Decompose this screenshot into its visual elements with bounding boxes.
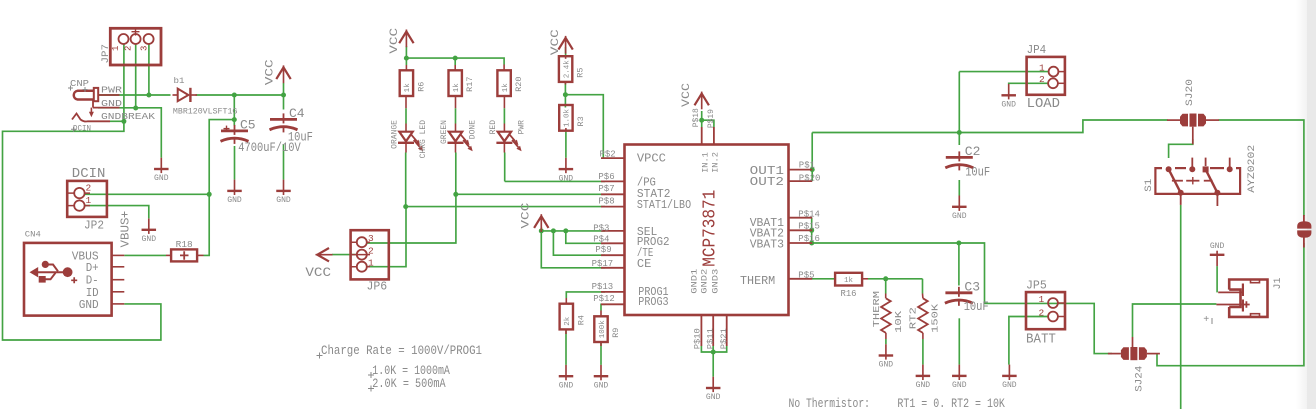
svg-text:P$3: P$3 (593, 224, 609, 234)
svg-text:DONE: DONE (469, 120, 478, 139)
screen edge shading (1296, 0, 1316, 409)
svg-text:GND: GND (276, 196, 291, 205)
svg-text:10uF: 10uF (965, 166, 990, 180)
pin label D+ (86, 261, 99, 275)
wire VCC4 stem (701, 111, 703, 120)
wire VPCC (565, 95, 603, 158)
text 1.0K (368, 363, 450, 378)
resistor RT2 (918, 294, 928, 340)
power VCC arrow 5 (534, 214, 548, 232)
svg-text:JP2: JP2 (84, 219, 104, 233)
svg-text:1: 1 (111, 46, 121, 51)
label C2 value (965, 166, 990, 180)
pin name PROG1 (638, 285, 668, 299)
svg-text:JP6: JP6 (367, 280, 388, 294)
svg-text:AYZ0202: AYZ0202 (1247, 145, 1258, 193)
svg-text:SJ24: SJ24 (1135, 366, 1146, 392)
ground JP4 (1001, 84, 1016, 110)
wire VCC arrow stem (283, 83, 285, 95)
svg-text:GND: GND (101, 99, 122, 109)
label VCC 2 (389, 27, 401, 54)
pin label P$18 (691, 108, 701, 127)
wire THERM net (812, 278, 835, 280)
pin name GND1 (690, 269, 700, 294)
wire JP5 pin2 to GND (1009, 317, 1048, 365)
svg-text:VBUS: VBUS (118, 218, 132, 248)
wire R6 top (405, 58, 407, 65)
svg-text:CHRG LED: CHRG LED (419, 120, 428, 159)
wire CE branch (541, 231, 605, 268)
pin label P$14 (798, 209, 820, 219)
svg-text:VCC: VCC (389, 27, 401, 54)
junction C5 tap (232, 93, 237, 98)
ground C5 (227, 180, 242, 206)
pin label P$16 (798, 234, 820, 244)
svg-text:P$7: P$7 (598, 184, 614, 194)
connector JP7 (110, 28, 161, 65)
wire STAT1/LBO (406, 206, 605, 208)
junction rail R6 (404, 56, 409, 61)
label VCC 5 (520, 202, 532, 229)
ground C2 (952, 196, 967, 222)
text no thermistor (789, 396, 871, 409)
label JP6 (367, 280, 388, 294)
svg-text:IN.1: IN.1 (701, 152, 711, 173)
svg-text:100k: 100k (599, 320, 607, 339)
pin name OUT2 (750, 175, 784, 189)
label JP4 (1027, 43, 1047, 57)
junction STAT2 LED2 JP6 (453, 192, 458, 197)
pin name THERM (740, 274, 775, 288)
pin number JP4-1 (1039, 62, 1045, 73)
svg-text:PROG3: PROG3 (638, 295, 668, 309)
svg-text:150K: 150K (929, 304, 940, 333)
svg-text:P$10: P$10 (692, 328, 702, 349)
svg-text:GND: GND (1001, 101, 1016, 110)
pin number JP2-1 (86, 195, 92, 206)
wire R16 to RT2 (868, 278, 923, 280)
label D1 (174, 76, 185, 86)
label VCC 4 (681, 83, 693, 107)
wire SEL (541, 230, 605, 232)
pin name STAT2 (637, 187, 671, 201)
wire VCC2 stem (405, 46, 407, 58)
wire LED rail (406, 58, 504, 64)
svg-text:JP7: JP7 (100, 44, 112, 64)
pin number JP5-1 (1039, 294, 1045, 305)
wire VCC5 stem (540, 227, 542, 231)
svg-text:VPCC: VPCC (637, 152, 666, 166)
connector CN4 (24, 243, 124, 316)
svg-text:P$6: P$6 (598, 172, 614, 182)
pin label GND jack (101, 99, 122, 109)
svg-text:GND: GND (559, 174, 574, 183)
wire JP7 pin2 (135, 44, 137, 109)
svg-text:3: 3 (368, 233, 374, 244)
pin name VBAT2 (750, 227, 784, 241)
label JP7 (100, 44, 112, 64)
svg-text:P$4: P$4 (593, 234, 609, 244)
pin label P$4 (593, 234, 609, 244)
junction TE tap (551, 228, 556, 233)
svg-text:P$5: P$5 (798, 270, 814, 280)
wire JP7 pin1 (123, 44, 125, 122)
svg-text:2: 2 (124, 46, 134, 51)
power VCC arrow 4 (695, 92, 709, 110)
label JP2 (84, 219, 104, 233)
svg-text:VCC: VCC (265, 59, 277, 86)
LED CHRG orange (391, 120, 428, 159)
svg-text:C2: C2 (965, 144, 981, 159)
pin label GNDBREAK (101, 112, 156, 122)
pin number JP5-2 (1039, 308, 1045, 319)
svg-text:1.0k: 1.0k (564, 108, 572, 127)
svg-text:GND1: GND1 (690, 269, 700, 294)
svg-text:+: + (1203, 315, 1209, 326)
pin number JP6-2 (368, 246, 374, 257)
pin label P$19 (706, 109, 716, 128)
wire THERM res bottom (885, 339, 887, 344)
pin number JP7-3 (140, 46, 150, 51)
connector JP2 (67, 181, 107, 217)
pin label P$11 (705, 328, 715, 349)
wire R17 top (454, 58, 456, 65)
wire diode D1 to VCC arrow (196, 94, 284, 96)
switch S1 AYZ0202 (1155, 158, 1240, 206)
wire STAT2 (456, 193, 605, 195)
wire THERM resistor top (885, 279, 887, 294)
svg-text:GND: GND (79, 298, 99, 312)
wire VCC3 stem (565, 47, 567, 56)
svg-text:P$1: P$1 (799, 161, 815, 171)
svg-text:R9: R9 (611, 328, 621, 338)
label J1 plus (1203, 315, 1212, 326)
wire PROG1 to R4 (566, 292, 605, 298)
label C3 value (964, 300, 989, 314)
pin name IN1 (701, 152, 711, 173)
svg-text:RT1 = 0. RT2 = 10K: RT1 = 0. RT2 = 10K (897, 396, 1005, 409)
pin label P$10 (692, 328, 702, 349)
pin name /PG (637, 175, 656, 189)
pin label VBUS (72, 250, 99, 264)
svg-text:1k: 1k (404, 83, 412, 93)
pin number JP7-1 (111, 46, 121, 51)
usb icon (30, 261, 78, 284)
label C4 value (288, 131, 313, 145)
svg-text:R5: R5 (576, 67, 586, 77)
svg-text:GND3: GND3 (710, 269, 720, 294)
wire SJ24 center to J1 plus (1133, 304, 1217, 337)
power VCC arrow 2 (399, 30, 413, 48)
junction C2 tap (957, 130, 962, 135)
wire C4 bottom (283, 144, 285, 180)
label SJ24 (1135, 366, 1146, 392)
wire RT2 bottom (922, 339, 924, 365)
junction THERM resistor (883, 276, 888, 281)
svg-text:C4: C4 (289, 106, 305, 121)
svg-text:DCIN: DCIN (72, 166, 106, 182)
connector JP6 (351, 230, 389, 279)
svg-text:THERM: THERM (740, 274, 775, 288)
svg-text:P$15: P$15 (798, 222, 820, 232)
resistor R20 (497, 65, 524, 109)
junction GND pins (711, 350, 716, 355)
svg-text:OUT2: OUT2 (750, 175, 784, 189)
wire C2 top (958, 133, 960, 146)
label THERM (871, 291, 882, 328)
label VCC 1 (265, 59, 277, 86)
LED DONE green (440, 120, 477, 153)
svg-text:GND: GND (594, 381, 609, 390)
ground THERM (879, 344, 894, 370)
ground R9 (594, 365, 609, 391)
ground C4 (276, 180, 291, 206)
svg-text:2: 2 (86, 183, 92, 194)
wire JP4 pin1 (959, 71, 1049, 73)
pin label P$3 (593, 224, 609, 234)
svg-text:GND: GND (916, 381, 931, 390)
svg-text:2k: 2k (564, 316, 572, 326)
svg-text:3: 3 (140, 46, 150, 51)
wire JP6 pin1 to STAT1 (367, 207, 406, 267)
wire PROG3 to R9 (601, 304, 605, 310)
battery connector J1 (1216, 280, 1267, 317)
resistor R6 (400, 65, 427, 108)
wire GND pins join (701, 346, 726, 352)
pin label P$20 (799, 174, 821, 184)
wire R3 bottom (565, 131, 567, 158)
net label VBUS (118, 212, 132, 248)
wire JP6 pin3 to STAT2 (367, 194, 456, 243)
wire C4 top (283, 95, 285, 110)
svg-text:P$17: P$17 (592, 259, 614, 269)
label THERM 10K (893, 311, 904, 333)
wire SJ20 to right edge (1219, 120, 1304, 216)
svg-text:1: 1 (368, 258, 374, 269)
pin number JP2-2 (86, 183, 92, 194)
ground C3 (952, 365, 967, 391)
wire R9 bottom (600, 342, 602, 365)
resistor R17 (449, 65, 476, 108)
svg-text:GND: GND (952, 381, 967, 390)
resistor R3 (559, 105, 586, 131)
junction GNDBREAK JP7 pin1 (121, 119, 126, 124)
junction PROG2 tap (563, 228, 568, 233)
text charge rate (317, 343, 483, 359)
text RT1 RT2 (897, 396, 1005, 409)
solder jumper SJ24 (1108, 337, 1160, 360)
svg-text:VCC: VCC (550, 29, 562, 56)
label CN4 (25, 230, 41, 240)
junction STAT1 LED1 JP6 (403, 204, 408, 209)
capacitor C3 (945, 279, 980, 306)
junction jack GND JP7 pin2 (133, 106, 138, 111)
svg-text:GND: GND (952, 212, 967, 221)
label BATT (1026, 332, 1056, 348)
wire IN1 pin (701, 120, 703, 127)
svg-text:GND: GND (879, 361, 894, 370)
svg-text:MCP73871: MCP73871 (701, 190, 721, 267)
wire JP2 pin2 to VCC branch (85, 193, 209, 195)
svg-text:J1: J1 (1273, 278, 1284, 290)
svg-text:S1: S1 (1144, 179, 1155, 192)
pin label PWR (101, 86, 123, 96)
svg-text:P$8: P$8 (598, 196, 614, 206)
wire jack GND (98, 108, 161, 158)
svg-text:2: 2 (368, 246, 374, 257)
pin name VBAT3 (750, 238, 784, 252)
svg-text:R4: R4 (576, 315, 586, 325)
wire R5 to R3 (564, 82, 566, 108)
pin label P$13 (592, 282, 614, 292)
wire C2 bottom (958, 180, 960, 196)
pin label P$8 (598, 196, 614, 206)
junction PWR JP7 pin3 (146, 93, 151, 98)
ground J1 (1210, 242, 1225, 266)
svg-text:R3: R3 (576, 116, 586, 126)
label C5 value (238, 141, 301, 155)
label MCP73871 (701, 190, 721, 267)
pin label P$21 (719, 328, 729, 349)
wire SJ24 right to right edge (1157, 243, 1304, 366)
power VCC arrow left JP6 (316, 248, 333, 261)
solder jumper SJ20 (1167, 114, 1219, 145)
wire SJ20 center to S1 (1169, 139, 1193, 158)
resistor R9 (594, 311, 621, 347)
svg-text:2: 2 (1039, 74, 1045, 85)
wire GND2 pin (712, 346, 714, 352)
svg-text:2: 2 (1039, 308, 1045, 319)
pin name CE (637, 257, 651, 271)
label RT2 150K (929, 304, 940, 333)
svg-text:GND: GND (142, 235, 157, 244)
svg-text:C5: C5 (240, 117, 256, 132)
junction R5 R3 VPCC (563, 92, 568, 97)
svg-text:GND2: GND2 (700, 269, 710, 294)
svg-text:LOAD: LOAD (1027, 96, 1060, 112)
svg-text:R18: R18 (176, 240, 193, 250)
resistor R5 (559, 56, 586, 85)
svg-text:10K: 10K (893, 311, 904, 333)
svg-text:P$21: P$21 (719, 328, 729, 349)
pin number JP6-3 (368, 233, 374, 244)
svg-text:R17: R17 (465, 76, 475, 91)
wire R18 to CN4 VBUS (124, 254, 166, 256)
label AYZ0202 (1247, 145, 1258, 193)
pin name PROG3 (638, 295, 668, 309)
label MBR120VLSFT1G (173, 107, 238, 117)
solder jumper right edge (1297, 215, 1311, 248)
pin label P$9 (595, 245, 611, 255)
resistor R16 (812, 273, 868, 286)
wire OUT to SJ20 (812, 120, 1167, 133)
junction VCC arrow C4 (281, 93, 286, 98)
junction C3 tap (956, 241, 961, 246)
svg-text:GND: GND (1210, 242, 1225, 251)
svg-text:PWR: PWR (517, 120, 526, 135)
resistor R4 (560, 298, 587, 334)
svg-text:VCC: VCC (681, 83, 693, 107)
diode D1 (173, 88, 198, 102)
pin name /TE (637, 246, 653, 260)
svg-text:1k: 1k (844, 277, 853, 285)
svg-text:PWR: PWR (101, 86, 123, 96)
pin name IN2 (710, 152, 720, 173)
svg-text:P$11: P$11 (705, 328, 715, 349)
pin label GND CN4 (79, 298, 99, 312)
label LOAD (1027, 96, 1060, 112)
svg-text:GND: GND (154, 174, 169, 183)
wire PWR jack to diode D1 (98, 94, 171, 96)
svg-text:SJ20: SJ20 (1185, 79, 1196, 106)
ground JP5 (1002, 365, 1017, 391)
ground JP2 pin1 (142, 219, 157, 245)
wire JP6 pin2 to VCC (332, 254, 357, 256)
pin label P$2 (600, 149, 616, 159)
wire R6 to LED1 (405, 108, 407, 123)
junction VBAT2 (809, 228, 814, 233)
pin label ID (86, 286, 99, 300)
svg-text:1: 1 (1039, 62, 1045, 73)
svg-text:1: 1 (1039, 294, 1045, 305)
svg-text:1k: 1k (453, 83, 461, 93)
svg-text:No Thermistor:: No Thermistor: (789, 396, 871, 409)
pin name SEL (637, 225, 658, 239)
wire C3 bottom (958, 318, 960, 364)
svg-text:P$19: P$19 (706, 109, 716, 128)
pin name GND2 (700, 269, 710, 294)
ground jack GND (154, 158, 169, 184)
svg-text:JP4: JP4 (1027, 43, 1047, 57)
thermistor THERM (881, 294, 891, 340)
capacitor C2 (945, 144, 980, 171)
svg-text:P$16: P$16 (798, 234, 820, 244)
power VCC arrow 3 (558, 36, 572, 54)
pin label P$17 (592, 259, 614, 269)
label S1 (1144, 179, 1155, 192)
svg-text:GNDBREAK: GNDBREAK (101, 112, 156, 122)
wire VCC branch to JP2/R18 (204, 120, 235, 256)
wire JP7 pin3 (148, 44, 150, 96)
pin label P$15 (798, 222, 820, 232)
capacitor C4 (270, 106, 305, 132)
label R16 (841, 288, 857, 299)
junction VBAT3 (809, 241, 814, 246)
pin name PROG2 (637, 235, 670, 249)
pin name VBAT1 (750, 216, 784, 230)
svg-text:VCC: VCC (305, 265, 331, 280)
capacitor C5 (221, 117, 256, 144)
svg-text:R20: R20 (514, 76, 524, 91)
wire LED3 cathode to PG (504, 153, 506, 182)
op-amp U1 MCP73871 body (601, 127, 812, 346)
svg-text:C3: C3 (964, 279, 980, 294)
svg-text:VBAT3: VBAT3 (750, 238, 784, 252)
svg-text:R16: R16 (841, 288, 857, 299)
wire J1 GND (1216, 266, 1218, 292)
power VCC arrow 1 (276, 65, 290, 83)
pin number JP7-2 (124, 46, 134, 51)
pin label P$6 (598, 172, 614, 182)
wire jack GNDBREAK (110, 120, 124, 122)
pin label P$12 (593, 294, 615, 304)
svg-text:JP5: JP5 (1026, 279, 1047, 293)
svg-text:ORANGE: ORANGE (391, 120, 400, 149)
wire R17 to LED2 (455, 108, 457, 123)
wire VBAT join (811, 218, 813, 243)
label VCC 3 (550, 29, 562, 56)
wire R20 to LED3 (503, 108, 505, 123)
